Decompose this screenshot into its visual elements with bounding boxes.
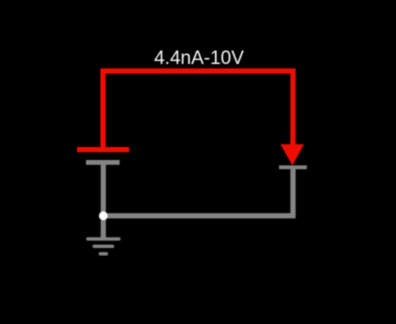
capacitor C1 top plate (red) xyxy=(77,147,129,152)
node junction dot xyxy=(99,211,108,220)
ground bar 1 xyxy=(88,237,119,240)
arrowhead of current path xyxy=(281,144,305,165)
terminal bar right (gray) xyxy=(279,165,307,169)
capacitor C1 bottom plate (gray) xyxy=(86,160,120,165)
ground bar 2 xyxy=(94,245,112,248)
svg-text:4.4nA-10V: 4.4nA-10V xyxy=(154,48,244,69)
ground bar 3 xyxy=(100,252,106,255)
wire bottom horizontal xyxy=(103,213,295,218)
wire red current path xyxy=(103,71,293,150)
wire left vertical from C1 to ground xyxy=(101,163,106,239)
wire right vertical xyxy=(290,168,295,218)
